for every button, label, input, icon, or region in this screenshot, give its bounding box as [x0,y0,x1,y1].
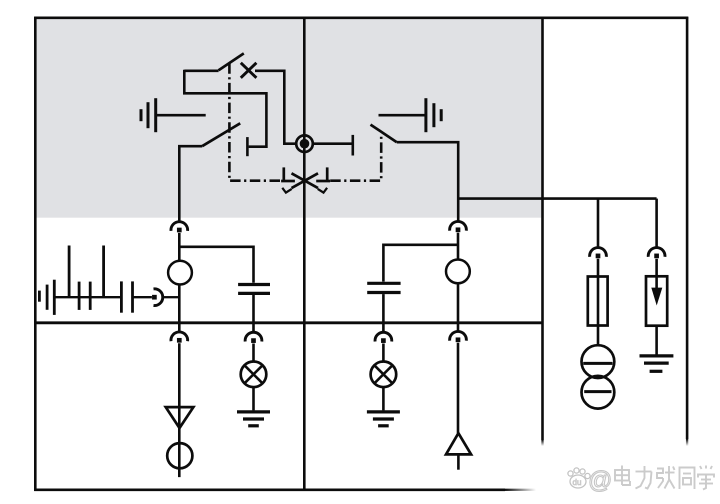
svg-text:du: du [573,478,582,487]
svg-text:@: @ [588,467,612,494]
